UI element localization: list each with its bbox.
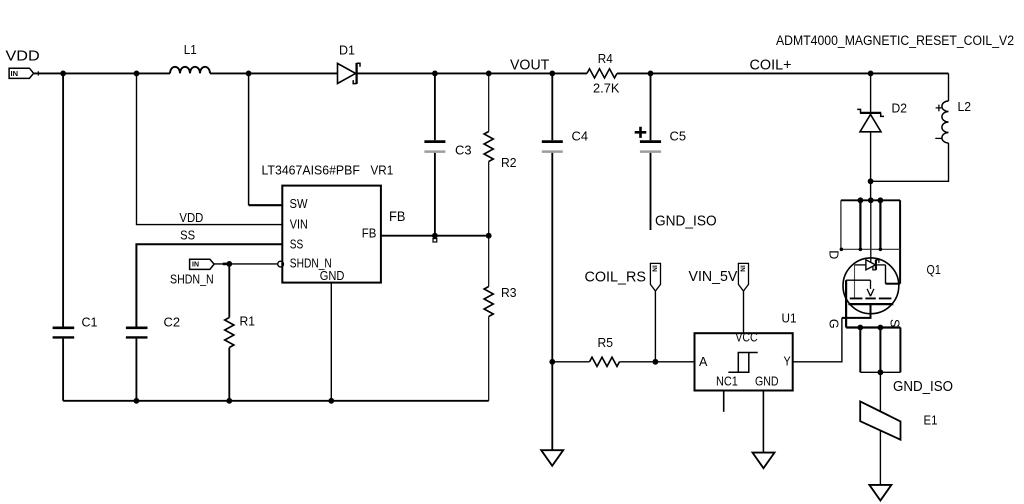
body diode xyxy=(866,260,876,270)
wire VIN_5V down to VCC xyxy=(743,291,745,333)
svg-text:E1: E1 xyxy=(924,414,938,428)
node junction C2/GND rail xyxy=(134,398,140,404)
svg-text:SHDN_N: SHDN_N xyxy=(170,273,214,287)
wire A net (C4 node to R5) xyxy=(552,361,589,363)
capacitor C2 xyxy=(126,315,180,401)
node junction VDD/C1 xyxy=(60,71,66,77)
svg-text:L1: L1 xyxy=(184,43,197,57)
node junction VR1 GND/GND rail xyxy=(328,398,334,404)
svg-text:C2: C2 xyxy=(164,315,181,329)
node junction SW xyxy=(246,71,252,77)
node junction FB/C3 xyxy=(432,233,438,239)
svg-text:IN: IN xyxy=(192,262,199,269)
svg-text:R2: R2 xyxy=(501,156,517,170)
node junction COIL_RS/A xyxy=(653,359,659,365)
transistor Q1 (N-MOSFET) xyxy=(826,197,941,330)
wire COIL_RS down xyxy=(654,291,656,362)
svg-text:IN: IN xyxy=(651,265,658,272)
svg-text:C3: C3 xyxy=(455,144,472,158)
wire GND_ISO to E1 xyxy=(879,372,881,411)
drain rail xyxy=(841,199,900,201)
inductor L2 xyxy=(871,73,972,181)
svg-text:FB: FB xyxy=(362,226,377,240)
svg-text:A: A xyxy=(699,355,708,369)
svg-text:GND: GND xyxy=(755,375,779,389)
wire top rail segment VDD to L1 xyxy=(34,72,170,74)
node junction VOUT/C4 xyxy=(549,71,555,77)
capacitor C1 xyxy=(53,73,98,400)
port VIN_5V (IN, vertical) xyxy=(738,263,748,291)
svg-text:VCC: VCC xyxy=(735,331,757,345)
svg-text:VR1: VR1 xyxy=(371,164,394,178)
svg-text:VOUT: VOUT xyxy=(510,56,549,73)
svg-text:SS: SS xyxy=(180,228,195,242)
bulk line and arrow xyxy=(846,279,870,281)
pin NC1 stub xyxy=(723,391,725,412)
svg-text:D: D xyxy=(827,250,841,259)
hysteresis glyph xyxy=(728,353,757,373)
wire FB xyxy=(381,235,489,237)
svg-text:VDD: VDD xyxy=(179,211,203,225)
capacitor C4 xyxy=(542,73,588,450)
svg-text:G: G xyxy=(826,319,840,329)
node junction FB/R2/R3 xyxy=(486,233,492,239)
svg-text:C1: C1 xyxy=(82,315,98,329)
channel dashes xyxy=(850,297,892,299)
svg-text:R3: R3 xyxy=(501,286,517,300)
diode D1 (schottky) xyxy=(338,44,361,84)
gate lead xyxy=(842,304,871,318)
svg-text:GND_ISO: GND_ISO xyxy=(893,378,953,395)
ground symbol (E1) xyxy=(869,485,891,501)
body circle xyxy=(843,258,899,314)
wire U1 GND down xyxy=(762,391,764,453)
ground symbol (C4/R5 node) xyxy=(541,450,563,466)
svg-text:IN: IN xyxy=(11,69,19,78)
svg-text:FB: FB xyxy=(389,208,405,224)
node junction C4/R5/gnd xyxy=(549,359,555,365)
svg-text:COIL_RS: COIL_RS xyxy=(585,269,647,286)
wire GND rail xyxy=(63,400,489,402)
svg-text:COIL+: COIL+ xyxy=(750,57,792,74)
net tie E1 xyxy=(860,401,937,439)
port VDD (IN) xyxy=(9,68,33,78)
gate plate xyxy=(848,303,893,305)
port COIL_RS (IN, vertical) xyxy=(650,263,660,291)
svg-text:GND: GND xyxy=(320,269,345,283)
svg-text:SW: SW xyxy=(290,197,308,211)
node junction VDD/VIN xyxy=(134,71,140,77)
wire Y to Q1 gate xyxy=(793,318,842,362)
svg-text:R4: R4 xyxy=(598,52,613,66)
wire source pins to GND_ISO xyxy=(859,328,861,373)
svg-text:2.7K: 2.7K xyxy=(593,82,620,96)
node junction COIL+/D2 xyxy=(868,71,874,77)
wire SS to C2 xyxy=(136,244,282,326)
regulator VR1 LT3467AIS6#PBF xyxy=(262,164,394,284)
svg-text:LT3467AIS6#PBF: LT3467AIS6#PBF xyxy=(262,164,361,178)
svg-text:C4: C4 xyxy=(572,130,589,144)
resistor R2 xyxy=(484,73,516,235)
svg-text:D2: D2 xyxy=(892,102,908,116)
svg-text:R1: R1 xyxy=(240,315,256,329)
resistor R4 xyxy=(587,52,620,96)
wire VDD vertical to VIN xyxy=(137,73,283,224)
svg-text:ADMT4000_MAGNETIC_RESET_COIL_V: ADMT4000_MAGNETIC_RESET_COIL_V2 xyxy=(776,33,1014,48)
wire R5 to A pin xyxy=(620,361,695,363)
wire SW xyxy=(248,73,250,205)
node junction C3 xyxy=(432,71,438,77)
port SHDN_N (IN) xyxy=(190,259,215,269)
node junction R1/GND rail xyxy=(226,398,232,404)
buffer U1 xyxy=(695,312,797,391)
node junction SHDN/R1 xyxy=(226,261,232,267)
drain pin wires xyxy=(840,200,842,249)
svg-text:Y: Y xyxy=(784,355,792,369)
svg-text:GND_ISO: GND_ISO xyxy=(655,213,717,230)
wire top rail segment R4 to L2 xyxy=(617,72,949,74)
svg-text:VIN: VIN xyxy=(290,218,308,232)
node junction source/GND_ISO xyxy=(878,369,884,375)
svg-text:R5: R5 xyxy=(598,336,614,350)
capacitor C5 (polarized) xyxy=(635,73,686,230)
node junction D2/L2 xyxy=(868,178,874,184)
wire VR1 GND to rail xyxy=(330,283,332,401)
inductor L1 xyxy=(170,43,210,73)
wire E1 to ground xyxy=(879,431,881,485)
resistor R5 xyxy=(590,336,620,366)
svg-text:VIN_5V: VIN_5V xyxy=(689,268,738,285)
resistor R1 xyxy=(225,264,255,401)
bulk to source xyxy=(845,280,847,327)
D bar xyxy=(841,248,900,250)
node junction R4/C5 xyxy=(648,71,654,77)
svg-text:L2: L2 xyxy=(958,100,972,114)
source rail xyxy=(846,326,900,328)
resistor R3 xyxy=(484,236,516,401)
capacitor C3 xyxy=(424,73,471,235)
ground symbol (U1) xyxy=(753,453,775,469)
svg-text:U1: U1 xyxy=(782,312,797,326)
node marker square below FB/C3 junction xyxy=(433,239,437,242)
svg-text:D1: D1 xyxy=(339,44,355,58)
svg-text:S: S xyxy=(888,319,902,327)
node junction R2 xyxy=(486,71,492,77)
svg-text:IN: IN xyxy=(739,265,746,272)
wire SHDN_N to pin xyxy=(214,263,278,265)
svg-text:NC1: NC1 xyxy=(716,375,738,389)
svg-text:C5: C5 xyxy=(670,130,687,144)
svg-text:SS: SS xyxy=(290,237,304,251)
wire top rail segment D1 to R4 xyxy=(357,72,588,74)
svg-text:Q1: Q1 xyxy=(927,263,941,277)
svg-text:VDD: VDD xyxy=(6,48,40,65)
diode D2 (schottky, vertical) xyxy=(857,73,907,200)
wire top rail segment L1 to D1 xyxy=(210,72,338,74)
